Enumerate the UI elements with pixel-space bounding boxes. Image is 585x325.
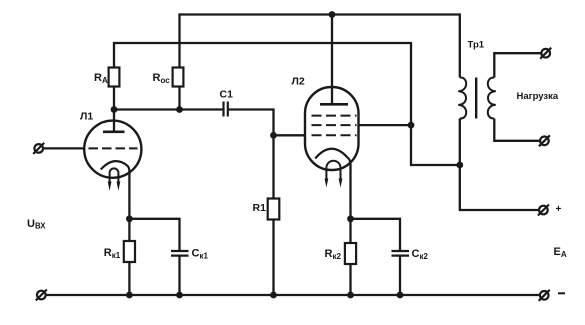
- wire L1 cathode lead: [128, 171, 130, 219]
- wire R1 top lead: [272, 135, 274, 198]
- wire Rk1 bottom lead: [128, 262, 130, 295]
- junction L2 anode at top rail: [329, 11, 336, 18]
- terminal EA minus: [539, 290, 550, 301]
- L2 envelope: [305, 87, 359, 170]
- wire Rk2 bottom lead: [349, 264, 351, 295]
- L1 heater arch: [110, 168, 119, 183]
- junction Rk2 at ground rail: [347, 292, 354, 299]
- terminal EA plus: [538, 205, 549, 216]
- junction L1 anode node: [111, 106, 118, 113]
- resistor Roc: [173, 68, 184, 87]
- wire input terminal to L1 grid: [44, 147, 85, 149]
- transformer Tr1 core: [475, 78, 477, 119]
- junction Ck1 at ground rail: [176, 292, 183, 299]
- terminal load top: [540, 48, 551, 59]
- wire L2 anode lead: [331, 15, 333, 104]
- terminal load bottom: [539, 135, 550, 146]
- tube L2 (pentode): [305, 87, 359, 188]
- resistor RA: [109, 68, 120, 87]
- label minus sign: [558, 292, 565, 294]
- L2 heater arrows: [325, 179, 343, 188]
- resistor R1: [268, 199, 280, 220]
- wire L2 cathode node to Ck2: [351, 219, 401, 251]
- junction screen feed to primary bottom: [456, 162, 463, 169]
- junction L1 cathode node: [126, 215, 133, 222]
- resistor Rk2: [345, 243, 356, 264]
- wire second rail (RA top to screen feed): [114, 43, 460, 165]
- L1 grid (dashed): [89, 147, 138, 149]
- wire Rk1 top lead: [128, 219, 130, 241]
- L2 anode plate: [320, 103, 348, 106]
- junction Rk1 at ground rail: [126, 292, 133, 299]
- wire Ck2 bottom lead: [399, 256, 401, 296]
- transformer Tr1 primary winding: [458, 77, 466, 118]
- wire Ck1 bottom lead: [178, 256, 180, 296]
- L1 anode plate: [103, 131, 125, 134]
- L1 heater arrows: [108, 182, 121, 191]
- wire Rk2 top lead: [349, 219, 351, 243]
- wire anode node L1 to C1: [114, 87, 223, 110]
- wire L2 screen grid to feed line: [358, 124, 411, 126]
- wire Tr1 secondary bottom to load terminal: [494, 119, 540, 141]
- L2 suppressor grid (dashed): [312, 115, 357, 117]
- capacitor C1: [224, 102, 228, 117]
- L2 heater arch: [326, 161, 340, 179]
- terminal input bottom: [36, 290, 47, 301]
- transformer Tr1 secondary winding: [488, 77, 496, 118]
- wire grid node to L2 control grid: [274, 134, 306, 136]
- svg-text:Л2: Л2: [292, 76, 305, 88]
- svg-text:R1: R1: [253, 202, 267, 214]
- svg-text:+: +: [556, 204, 562, 215]
- capacitor Ck1: [171, 251, 189, 256]
- tube L1 (triode): [84, 121, 141, 191]
- wire L1 anode lead: [113, 110, 115, 132]
- junction Roc bottom node: [176, 106, 183, 113]
- wire top rail (Roc top / L2 anode / Tr1 primary top): [180, 15, 460, 78]
- wire L1 cathode node to Ck1: [129, 219, 179, 251]
- svg-text:Л1: Л1: [80, 111, 93, 123]
- junction C1/R1/grid node: [270, 132, 277, 139]
- svg-text:Тр1: Тр1: [468, 40, 485, 51]
- wire Tr1 primary bottom to plus terminal: [460, 119, 539, 211]
- junction screen feed node: [408, 122, 415, 129]
- resistor Rk1: [124, 241, 135, 262]
- L1 cathode: [101, 161, 130, 171]
- terminal input top (Uvx): [33, 143, 44, 154]
- wire L2 cathode lead: [349, 164, 351, 219]
- L2 screen grid (dashed): [312, 124, 357, 126]
- wire bottom rail (ground return): [46, 294, 540, 296]
- L1 envelope: [84, 121, 141, 178]
- wire Roc bottom lead: [178, 87, 180, 110]
- wire R1 bottom lead: [272, 220, 274, 296]
- wire C1 to grid node: [228, 110, 274, 136]
- L2 control grid (dashed): [312, 134, 357, 136]
- L2 cathode: [315, 149, 350, 165]
- capacitor Ck2: [392, 251, 410, 256]
- junction Ck2 at ground rail: [397, 292, 404, 299]
- junction L2 cathode node: [347, 215, 354, 222]
- junction R1 at ground rail: [270, 292, 277, 299]
- wire Tr1 secondary top to load terminal: [494, 53, 541, 77]
- svg-text:C1: C1: [220, 89, 234, 101]
- svg-text:Нагрузка: Нагрузка: [517, 91, 559, 102]
